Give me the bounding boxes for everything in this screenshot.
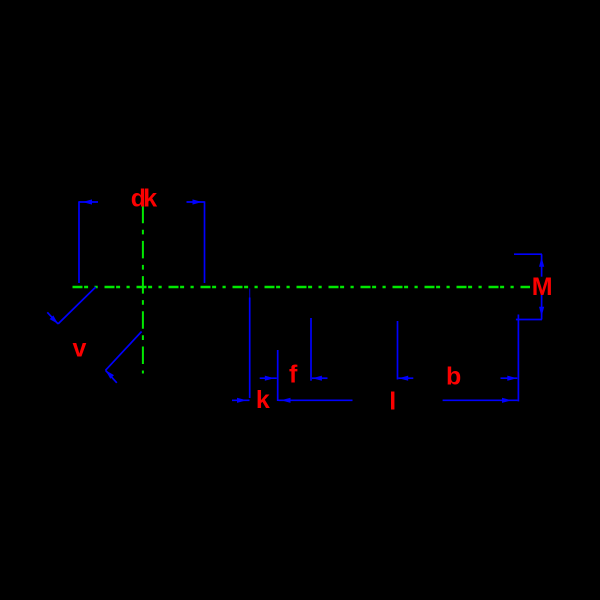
svg-text:dk: dk (131, 184, 157, 212)
svg-text:v: v (73, 335, 87, 363)
svg-text:f: f (289, 361, 298, 389)
svg-text:l: l (389, 388, 396, 416)
svg-text:b: b (446, 363, 461, 391)
svg-text:k: k (256, 386, 270, 414)
svg-text:M: M (532, 273, 553, 301)
